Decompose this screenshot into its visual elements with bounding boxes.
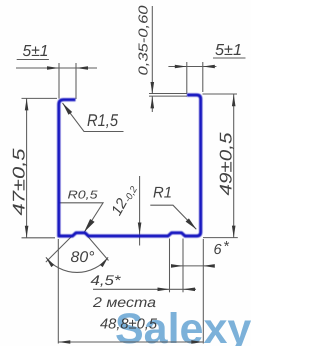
svg-text:R1,5: R1,5: [87, 111, 118, 130]
ext line bump right edge: [182, 239, 184, 293]
arrow 48,8 left: [58, 340, 70, 344]
svg-text:49±0,5: 49±0,5: [217, 132, 236, 196]
shelf R0,5: [59, 203, 103, 232]
arrow 4,5 pointing right: [158, 288, 170, 292]
dim line 49: [233, 94, 235, 237]
ext line 49 top: [203, 93, 238, 95]
arrow 4,5 pointing left: [183, 288, 195, 292]
V line left of 80 angle: [46, 233, 75, 262]
arrow thickness up: [151, 96, 155, 108]
arrowhead R0,5 leader: [84, 219, 95, 232]
thickness dim vertical line: [151, 6, 153, 94]
dim line 5±1 right: [168, 66, 216, 68]
svg-text:5±1: 5±1: [215, 42, 242, 59]
svg-text:48,8±0,5: 48,8±0,5: [100, 317, 158, 333]
thickness ext line bottom surface: [149, 95, 187, 97]
dim line 6: [171, 265, 214, 267]
arrow 6 pointing right: [171, 264, 183, 268]
ext line 5±1 right, wall side: [202, 62, 204, 92]
dim line 4,5: [93, 288, 196, 290]
ext line 48,8 right: [202, 239, 204, 344]
arrow 5±1 right pointing right at lip tip: [175, 65, 187, 69]
shelf R1: [150, 205, 196, 229]
ext line 5±1 left, lip tip: [75, 63, 77, 99]
arrow thickness down: [151, 82, 155, 94]
dim line 48,8: [58, 341, 203, 343]
arrow 5±1 right pointing left at wall: [203, 65, 215, 69]
svg-text:4,5*: 4,5*: [91, 272, 122, 288]
arc 80 degrees: [46, 257, 108, 272]
arrow 49 bottom: [232, 226, 236, 238]
profile outline (blue): [59, 95, 201, 236]
arrow 6 pointing left: [203, 264, 215, 268]
arrow 5±1 left pointing right at wall: [47, 66, 59, 70]
ext line 5±1 left, wall side: [58, 63, 60, 99]
shelf under 5±1 right text: [213, 57, 246, 59]
svg-text:R0,5: R0,5: [68, 189, 99, 201]
arc arrowhead right: [100, 257, 108, 267]
svg-text:2 места: 2 места: [92, 294, 156, 310]
ext line 49 bottom: [203, 237, 238, 239]
shelf R1,5: [63, 103, 124, 132]
svg-text:R1: R1: [153, 185, 172, 202]
arrow 47 bottom: [25, 226, 29, 238]
svg-text:5±1: 5±1: [23, 43, 49, 60]
arrow 47 top: [25, 98, 29, 110]
arrowhead R1 leader: [186, 218, 197, 229]
arc arrowhead left: [46, 257, 54, 267]
arrowhead R1,5 leader: [63, 103, 73, 115]
ext line 47 top: [22, 97, 58, 99]
dim line 12: [139, 176, 141, 246]
svg-text:47±0,5: 47±0,5: [9, 148, 28, 216]
ext line 47 bottom: [22, 237, 56, 239]
dim line 5±1 left: [16, 67, 97, 69]
svg-text:80°: 80°: [71, 249, 95, 266]
ext line 5±1 right, lip tip: [186, 62, 188, 94]
svg-text:6*: 6*: [214, 239, 231, 258]
shelf under 5±1 left text: [17, 59, 49, 61]
arrow 48,8 right: [191, 340, 203, 344]
arrow 5±1 left pointing left at lip tip: [76, 66, 88, 70]
ext line 48,8 left: [57, 239, 59, 344]
svg-text:0,35-0,60: 0,35-0,60: [136, 5, 151, 76]
dim line 47: [26, 98, 28, 237]
svg-text:12-0,2: 12-0,2: [108, 181, 140, 219]
thickness lower stub: [151, 96, 153, 112]
V line right of 80 angle: [84, 232, 109, 261]
arrow 12 down: [138, 223, 142, 235]
thickness ext line top surface: [149, 93, 187, 95]
arrow 49 top: [232, 94, 236, 106]
ext line bump left edge: [169, 239, 171, 293]
